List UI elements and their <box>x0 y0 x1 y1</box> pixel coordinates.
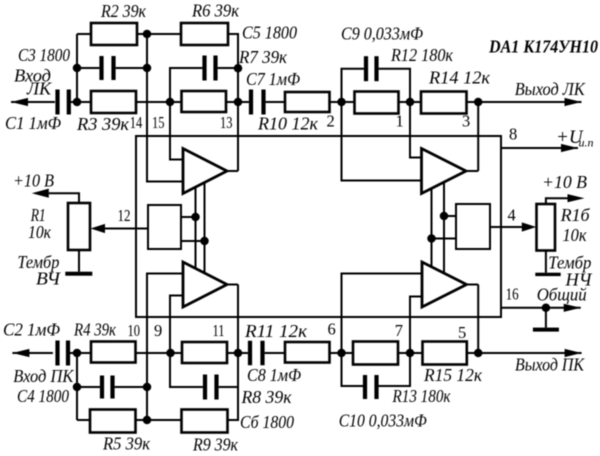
svg-text:13: 13 <box>220 113 233 132</box>
wire: C5 left lead elbow to node C <box>170 68 202 160</box>
svg-text:R13 180к: R13 180к <box>392 386 452 406</box>
svg-text:10к: 10к <box>28 222 52 242</box>
svg-text:R4 39к: R4 39к <box>73 320 117 340</box>
wire: C6 right lead <box>219 386 238 388</box>
svg-text:10: 10 <box>128 321 141 340</box>
wire: internal link B (U1.1 to U1.3 outer) <box>204 183 206 274</box>
svg-text:1: 1 <box>396 112 404 131</box>
wire: internal stub box1 top <box>181 216 196 218</box>
wire: R1 wiper arrow (pin 12) <box>91 224 106 233</box>
label C10 value <box>339 411 427 431</box>
wire: C10 bypass loop right (pin 7 vertical) <box>378 297 422 387</box>
label pin 8 <box>509 125 517 144</box>
wire: C10 bypass loop left (pin 6 vertical) <box>342 274 423 387</box>
label pin 3 <box>462 112 470 131</box>
svg-text:R14 12к: R14 12к <box>428 68 491 88</box>
junction node K (pin 9) <box>166 349 175 358</box>
junction node P (pin 5, output ПК) <box>474 349 483 358</box>
label pin 1 <box>396 112 404 131</box>
resistor R6 39к <box>181 23 228 45</box>
label R1 value <box>28 222 52 242</box>
label Выход ПК <box>515 355 585 375</box>
capacitor C9 0,033мФ <box>364 56 379 81</box>
junction node L (pin 11) <box>234 349 243 358</box>
svg-text:R8 39к: R8 39к <box>240 387 292 407</box>
wire: R13 to R15 (node N) <box>398 352 423 354</box>
label Тембр ВЧ line2 <box>36 268 61 288</box>
wire: C8 to R11 <box>265 352 285 354</box>
svg-text:Выход ЛК: Выход ЛК <box>515 79 586 99</box>
label R7 value <box>238 47 288 67</box>
wire: R2 to R6 top row <box>137 33 181 35</box>
svg-text:3: 3 <box>462 112 470 131</box>
wire: R16 top lead to +10 В arrow <box>546 194 585 204</box>
wire: node H vertical (C2/C4/R5 junction) <box>77 353 90 420</box>
junction internal link A / block1 <box>191 213 200 222</box>
junction node C (pin 15) <box>166 98 175 107</box>
svg-text:R15 12к: R15 12к <box>423 365 483 385</box>
wire: node A vertical (C1/R2/C3 junction) <box>77 34 91 102</box>
junction C3-right/pin14 <box>143 64 152 73</box>
svg-text:ЛК: ЛК <box>26 79 52 99</box>
wire: internal stub box2 top <box>444 215 456 217</box>
junction node H on input row ПК <box>73 349 82 358</box>
svg-text:R10 12к: R10 12к <box>257 114 319 134</box>
internal block right (tone control, pin 4) <box>456 204 490 249</box>
label pin 4 <box>508 206 516 225</box>
label Вход ЛК line1 <box>14 66 51 86</box>
wire: R7 to C7 (node D) <box>226 101 249 103</box>
wire: pin 8 supply line <box>501 144 578 152</box>
label C2 value <box>3 320 60 340</box>
wire: R10 to R12 (node E) <box>330 101 355 103</box>
wire: R16 bottom lead <box>545 251 547 273</box>
wire: R8 to C8 (node L) <box>227 352 248 354</box>
label C1 value <box>5 113 61 133</box>
junction C3-left/node A <box>73 64 82 73</box>
label Выход ЛК <box>515 79 586 99</box>
capacitor C8 1мФ <box>248 341 265 366</box>
resistor R13 180к <box>353 342 398 365</box>
junction C4-right/pin10 <box>143 383 152 392</box>
wire: C3 right lead to node B <box>116 67 147 69</box>
ground symbol under R1 <box>65 272 92 276</box>
capacitor C4 1800 <box>100 376 115 399</box>
resistor R7 39к <box>182 91 227 112</box>
label R5 value <box>102 434 151 454</box>
label R13 value <box>392 386 452 406</box>
ground symbol at Общий node <box>533 328 559 332</box>
resistor R3 39к <box>91 91 136 113</box>
junction internal link C / block2 <box>427 234 436 243</box>
wire: internal link D (U1.2 to U1.4) <box>443 182 445 273</box>
svg-text:R12 180к: R12 180к <box>390 45 454 65</box>
label R16 designator <box>560 205 591 225</box>
wire: Общий ground stem <box>545 308 547 328</box>
op-amp U1.3 (bottom left amplifier) <box>183 262 227 307</box>
wire: R1 bottom lead <box>78 250 80 272</box>
svg-text:+10 В: +10 В <box>542 172 587 192</box>
junction node E (pin 2) <box>337 98 346 107</box>
resistor R9 39к <box>182 410 228 433</box>
label R6 value <box>191 1 240 21</box>
label +U supply <box>556 127 594 150</box>
wire: C6 left lead elbow to node K <box>170 296 203 388</box>
resistor R8 39к <box>182 342 227 363</box>
junction node M (pin 6) <box>337 349 346 358</box>
junction node G (pin 3, output ЛК) <box>474 98 483 107</box>
svg-text:4: 4 <box>508 206 516 225</box>
label pin 6 <box>328 320 336 339</box>
op-amp U1.2 (top right amplifier) <box>422 149 467 194</box>
svg-text:R9 39к: R9 39к <box>192 435 239 455</box>
junction node N (pin 7) <box>406 349 415 358</box>
wire: R14 to output node G <box>467 101 479 103</box>
svg-text:15: 15 <box>152 113 165 132</box>
wire: R15 to output node P <box>467 352 478 354</box>
wire: left input row ЛК (arrow to C1) <box>11 98 55 106</box>
label Тембр НЧ line2 <box>564 270 592 290</box>
wire: internal stub box2 bottom <box>432 238 457 240</box>
svg-text:С10 0,033мФ: С10 0,033мФ <box>339 411 427 431</box>
op-amp U1.4 (bottom right amplifier) <box>422 262 467 307</box>
wire: pin 16 common line <box>501 304 581 312</box>
svg-text:14: 14 <box>130 113 143 132</box>
svg-text:6: 6 <box>328 320 336 339</box>
svg-text:ВЧ: ВЧ <box>36 268 61 288</box>
label C3 value <box>18 45 70 65</box>
svg-text:С7 1мФ: С7 1мФ <box>246 69 300 89</box>
label R4 value <box>73 320 117 340</box>
svg-text:R11 12к: R11 12к <box>244 321 308 341</box>
svg-text:С9 0,033мФ: С9 0,033мФ <box>341 24 423 44</box>
svg-text:2: 2 <box>327 112 335 131</box>
resistor R5 39к <box>90 410 136 433</box>
capacitor C1 1мФ <box>55 90 70 115</box>
svg-text:R5 39к: R5 39к <box>102 434 151 454</box>
ground symbol under R16 <box>535 273 560 276</box>
svg-text:R7 39к: R7 39к <box>238 47 288 67</box>
svg-text:11: 11 <box>213 321 225 340</box>
junction C5-right/pin13 branch <box>234 64 243 73</box>
svg-text:R2 39к: R2 39к <box>100 1 147 21</box>
wire: op-amp U1.1 output to pin 13 <box>227 170 238 172</box>
label R15 value <box>423 365 483 385</box>
potentiometer R1 10к (Тембр ВЧ) <box>68 203 90 250</box>
label R1 designator <box>30 205 46 225</box>
svg-text:Сб 1800: Сб 1800 <box>240 412 294 432</box>
svg-text:DA1 К174УН10: DA1 К174УН10 <box>488 37 598 57</box>
svg-text:Общий: Общий <box>537 285 587 305</box>
label C8 value <box>247 365 301 385</box>
capacitor C10 0,033мФ <box>363 375 379 399</box>
resistor R2 39к <box>91 23 137 45</box>
wire: internal stub box1 bottom <box>181 240 205 242</box>
wire: C9 bypass loop left (pin 2 vertical) <box>342 69 422 181</box>
wire: op-amp U1.3 output to pin 11 <box>227 284 238 286</box>
wire: pin 5 vertical (node P to op-amp U1.4 output) <box>467 285 479 354</box>
wire: C1 to node A to R3 <box>71 101 91 103</box>
wire: R12 to R14 (node F) <box>399 101 422 103</box>
label R9 value <box>192 435 239 455</box>
label C9 value <box>341 24 423 44</box>
label pin 7 <box>395 321 403 340</box>
label R2 value <box>100 1 147 21</box>
junction node F (pin 1) <box>406 98 415 107</box>
svg-text:10к: 10к <box>563 225 588 245</box>
wire: R9 right lead to pin 11 vertical <box>228 285 239 421</box>
wire: C4 right lead to node J <box>115 386 147 388</box>
wire: internal link A (U1.1 to U1.3) <box>195 187 197 269</box>
op-amp U1 IC body DA1 К174УН10 <box>136 136 501 317</box>
resistor R10 12к <box>285 92 330 112</box>
wire: C2 to node H to R4 <box>69 352 91 354</box>
svg-text:и.п: и.п <box>579 136 594 150</box>
junction R2-R6/pin14 <box>143 30 152 39</box>
junction C4-left/node H <box>73 383 82 392</box>
potentiometer R16 10к (Тембр НЧ) <box>537 204 556 251</box>
svg-text:+10 В: +10 В <box>13 171 54 191</box>
label C5 value <box>242 23 297 43</box>
wire: C4 left lead <box>77 386 100 388</box>
capacitor C3 1800 <box>99 56 115 80</box>
label Общий <box>537 285 587 305</box>
internal block left (tone control, pin 12) <box>148 205 181 249</box>
label pin 15 <box>152 113 165 132</box>
svg-text:R3 39к: R3 39к <box>76 114 130 134</box>
svg-text:12: 12 <box>118 206 131 225</box>
label pin 11 <box>213 321 225 340</box>
wire: output ЛК arrow <box>478 98 581 106</box>
svg-text:16: 16 <box>506 285 519 304</box>
label Вход ПК <box>13 366 74 386</box>
junction node A on input row ЛК <box>73 98 82 107</box>
resistor R15 12к <box>423 342 467 365</box>
label DA1 К174УН10 <box>488 37 598 57</box>
junction node D (pin 13) <box>234 98 243 107</box>
svg-text:Выход ПК: Выход ПК <box>515 355 585 375</box>
wire: output ПК arrow <box>478 349 581 357</box>
wire: pin 10 vertical (op-amp U1.3 input to node J) <box>147 274 183 421</box>
wire: C5 right lead <box>218 67 238 69</box>
wire: C3 left lead <box>77 67 99 69</box>
wire: pin 12 line to R1 wiper <box>105 228 148 230</box>
label pin 13 <box>220 113 233 132</box>
label pin 2 <box>327 112 335 131</box>
junction R5-R9/pin10 <box>143 416 152 425</box>
label pin 12 <box>118 206 131 225</box>
svg-text:С3 1800: С3 1800 <box>18 45 70 65</box>
svg-text:7: 7 <box>395 321 403 340</box>
label R12 value <box>390 45 454 65</box>
svg-text:R1б: R1б <box>560 205 591 225</box>
wire: C9 bypass loop right (pin 1 vertical) <box>379 69 422 158</box>
svg-text:Вход ПК: Вход ПК <box>13 366 74 386</box>
svg-text:С4 1800: С4 1800 <box>17 386 69 406</box>
junction internal link D / block2 <box>440 212 449 221</box>
capacitor C6 1800 <box>203 375 219 400</box>
resistor R4 39к <box>91 342 136 363</box>
label C7 value <box>246 69 300 89</box>
svg-text:С1 1мФ: С1 1мФ <box>5 113 61 133</box>
label pin 10 <box>128 321 141 340</box>
label C4 value <box>17 386 69 406</box>
svg-text:8: 8 <box>509 125 517 144</box>
label pin 9 <box>154 321 162 340</box>
label pin 5 <box>458 323 466 342</box>
wire: R6 right lead to pin 13 vertical <box>228 34 238 171</box>
label Тембр НЧ line1 <box>548 253 591 273</box>
label pin 16 <box>506 285 519 304</box>
wire: R16 wiper arrow (pin 4) <box>522 222 537 231</box>
label R16 value <box>563 225 588 245</box>
wire: R11 to R13 (node M) <box>330 352 354 354</box>
label R14 value <box>428 68 491 88</box>
wire: R3 to node C to R7 <box>136 101 182 103</box>
capacitor C5 1800 <box>202 56 217 81</box>
label Тембр ВЧ line1 <box>17 252 59 272</box>
capacitor C2 1мФ <box>55 341 70 366</box>
label C6 value <box>240 412 294 432</box>
resistor R11 12к <box>285 342 330 363</box>
svg-text:С8 1мФ: С8 1мФ <box>247 365 301 385</box>
svg-text:R6 39к: R6 39к <box>191 1 240 21</box>
resistor R12 180к <box>355 92 399 114</box>
junction internal link B / block1 <box>200 237 209 246</box>
op-amp U1.1 (top left amplifier) <box>183 149 227 194</box>
capacitor C7 1мФ <box>249 90 266 115</box>
svg-text:С2 1мФ: С2 1мФ <box>3 320 60 340</box>
wire: C7 to R10 <box>266 101 285 103</box>
svg-text:5: 5 <box>458 323 466 342</box>
label pin 14 <box>130 113 143 132</box>
wire: R4 to node K to R8 <box>136 352 183 354</box>
wire: pin 3 vertical (node G to op-amp U1.2 output) <box>466 102 478 171</box>
wire: R5 to R9 bottom row <box>135 419 182 421</box>
wire: pin 14 vertical (node B to op-amp U1.1 inverting input) <box>147 34 183 182</box>
wire: left input row ПК (arrow to C2) <box>12 349 53 357</box>
junction Общий node <box>542 304 551 313</box>
label R10 value <box>257 114 319 134</box>
label R8 value <box>240 387 292 407</box>
label R3 value <box>76 114 130 134</box>
label R11 value <box>244 321 308 341</box>
wire: internal link C (U1.2 to U1.4 outer) <box>431 188 433 267</box>
label +10 В right <box>542 172 587 192</box>
svg-text:С5 1800: С5 1800 <box>242 23 297 43</box>
label +10 В left <box>13 171 54 191</box>
label Вход ЛК line2 <box>26 79 52 99</box>
wire: R1 top lead to +10 В arrow <box>32 189 79 203</box>
svg-text:9: 9 <box>154 321 162 340</box>
wire: pin 4 line to R16 wiper <box>490 226 523 228</box>
resistor R14 12к <box>421 92 467 114</box>
